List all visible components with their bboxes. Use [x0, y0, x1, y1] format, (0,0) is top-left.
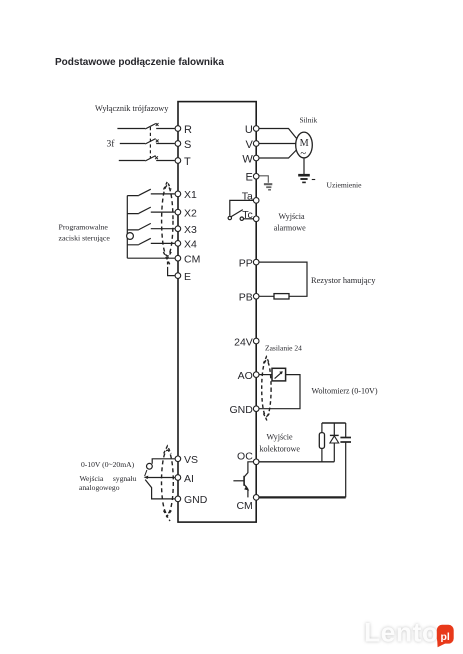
shield ellipse 2	[262, 360, 271, 416]
breaker blade S	[145, 139, 155, 144]
wire voltmeter loop to GND	[259, 375, 300, 409]
control switch X3	[127, 223, 175, 230]
terminal GND right	[253, 406, 259, 412]
control switch X4	[127, 238, 175, 245]
svg-text:Wyłącznik trójfazowy: Wyłącznik trójfazowy	[95, 104, 169, 113]
svg-text:Zasilanie 24: Zasilanie 24	[265, 343, 302, 352]
svg-text:X4: X4	[184, 239, 197, 251]
wire Ta to contact	[230, 200, 256, 216]
svg-text:kolektorowe: kolektorowe	[260, 445, 301, 454]
terminal CM right	[253, 495, 259, 501]
relay contact Ta-Tc	[228, 216, 231, 219]
wire phase R	[117, 128, 174, 130]
capacitor	[345, 423, 347, 497]
small dash	[312, 179, 315, 181]
svg-text:CM: CM	[184, 254, 200, 266]
svg-text:V: V	[245, 139, 253, 151]
svg-text:PB: PB	[239, 292, 253, 304]
svg-text:Lento: Lento	[364, 618, 439, 648]
svg-text:GND: GND	[229, 404, 253, 416]
wire AO to voltmeter	[256, 374, 272, 376]
terminal S	[175, 141, 181, 147]
wire PP loop	[256, 262, 307, 296]
x mark T	[155, 156, 158, 159]
svg-text:Silnik: Silnik	[300, 116, 318, 125]
terminal V	[253, 141, 259, 147]
breaker link dashed line	[149, 127, 151, 159]
svg-text:E: E	[184, 271, 191, 283]
wire AI wiper	[147, 477, 175, 479]
svg-text:Wyjścia: Wyjścia	[279, 212, 305, 221]
control switch X2	[127, 207, 175, 214]
svg-text:W: W	[242, 153, 253, 165]
motor M	[296, 132, 313, 158]
terminal R	[175, 126, 181, 132]
terminal CM left	[175, 255, 181, 261]
shield to E wire	[168, 267, 175, 276]
svg-text:AO: AO	[238, 370, 253, 382]
svg-text:M: M	[300, 138, 309, 149]
diode	[333, 423, 335, 462]
x mark R	[156, 123, 159, 126]
terminal X1	[175, 191, 181, 197]
svg-text:T: T	[184, 156, 191, 168]
terminal T	[175, 158, 181, 164]
svg-text:0-10V (0~20mA): 0-10V (0~20mA)	[81, 460, 135, 469]
potentiometer	[147, 463, 153, 469]
terminal VS	[175, 456, 181, 462]
terminal PP	[253, 259, 259, 265]
svg-text:pl: pl	[441, 631, 450, 643]
x mark S	[156, 140, 159, 143]
svg-text:Woltomierz (0-10V): Woltomierz (0-10V)	[312, 387, 378, 396]
terminal E left	[175, 273, 181, 279]
svg-text:Wejścia sygnału: Wejścia sygnału	[80, 474, 137, 483]
terminal AI	[175, 475, 181, 481]
breaker blade R	[145, 124, 155, 129]
terminal GND left	[175, 496, 181, 502]
wire CM left	[127, 257, 175, 259]
wire motor to ground	[303, 158, 305, 174]
wire W to motor	[256, 150, 296, 158]
svg-text:PP: PP	[239, 257, 253, 269]
wire E to ground	[256, 176, 268, 183]
terminal X3	[175, 226, 181, 232]
svg-text:Ta: Ta	[242, 191, 253, 203]
terminal 24V	[253, 338, 259, 344]
shield ellipse 3	[162, 450, 174, 514]
svg-text:AI: AI	[184, 473, 194, 485]
terminal Ta	[253, 198, 259, 204]
control bus wire	[126, 196, 128, 259]
terminal X2	[175, 209, 181, 215]
svg-text:analogowego: analogowego	[79, 483, 120, 492]
svg-text:zaciski sterujące: zaciski sterujące	[59, 233, 111, 242]
wire V to motor	[256, 143, 295, 145]
pushbutton circle	[127, 233, 134, 240]
terminal AO	[253, 372, 259, 378]
transistor Q1 (open collector)	[244, 462, 256, 477]
terminal W	[253, 155, 259, 161]
ground (motor)	[298, 174, 310, 177]
ground (E) gray	[264, 183, 272, 185]
svg-text:X3: X3	[184, 224, 197, 236]
brake resistor	[274, 294, 289, 299]
wire OC	[256, 461, 334, 463]
svg-text:Uziemienie: Uziemienie	[327, 181, 363, 190]
wire U to motor	[256, 129, 296, 139]
terminal X4	[175, 241, 181, 247]
svg-text:U: U	[245, 124, 253, 136]
svg-text:Programowalne: Programowalne	[59, 222, 109, 231]
svg-text:CM: CM	[236, 500, 252, 512]
wire phase S	[120, 143, 175, 145]
shield ellipse 1	[162, 186, 173, 256]
terminal PB	[253, 294, 259, 300]
wire CM thick	[256, 496, 346, 498]
svg-text:24V: 24V	[234, 336, 253, 348]
svg-text:E: E	[245, 172, 252, 184]
svg-text:OC: OC	[237, 450, 253, 462]
wire PB	[256, 295, 274, 297]
svg-text:Rezystor hamujący: Rezystor hamujący	[311, 276, 376, 285]
resistor (snubber)	[321, 423, 323, 462]
svg-text:VS: VS	[184, 454, 198, 466]
svg-text:alarmowe: alarmowe	[274, 224, 306, 233]
wire GND analog	[145, 480, 175, 499]
snubber top wire	[322, 422, 346, 424]
svg-text:S: S	[184, 139, 191, 151]
svg-text:Wyjście: Wyjście	[267, 433, 293, 442]
svg-text:X2: X2	[184, 207, 197, 219]
voltmeter	[272, 368, 286, 381]
control switch X1	[127, 189, 175, 195]
svg-text:R: R	[184, 124, 192, 136]
svg-text:Podstawowe podłączenie falowni: Podstawowe podłączenie falownika	[55, 57, 224, 68]
svg-text:X1: X1	[184, 189, 197, 201]
terminal E right	[253, 174, 259, 180]
svg-text:GND: GND	[184, 494, 208, 506]
breaker blade T	[145, 156, 155, 161]
wire VS to potentiometer	[152, 459, 175, 464]
terminal U	[253, 126, 259, 132]
svg-text:Tc: Tc	[242, 209, 253, 221]
svg-text:3f: 3f	[107, 139, 116, 150]
terminal OC	[253, 459, 259, 465]
inverter box	[178, 102, 256, 522]
wire phase T	[119, 160, 175, 162]
terminal Tc	[253, 216, 259, 222]
